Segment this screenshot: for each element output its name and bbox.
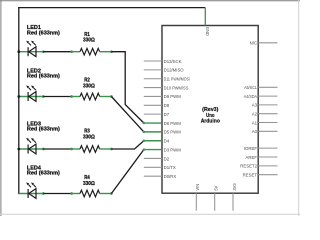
- svg-text:D12/MISO: D12/MISO: [164, 68, 185, 73]
- svg-text:D8: D8: [164, 103, 170, 108]
- pin A2 leg: [258, 113, 277, 115]
- svg-text:A5/SCL: A5/SCL: [244, 85, 257, 90]
- wire R4 to D3: [111, 150, 143, 194]
- pin N/C leg: [258, 42, 277, 44]
- node LED3 anode: [42, 148, 45, 151]
- LED LED1: [26, 41, 36, 57]
- svg-text:RESET: RESET: [243, 173, 258, 178]
- svg-text:AREF: AREF: [246, 155, 258, 160]
- node R4 pin1: [70, 192, 73, 195]
- node LED1 anode: [42, 50, 45, 53]
- wire LED2 to R2: [43, 96, 71, 98]
- pin A3 leg: [258, 104, 277, 106]
- svg-text:GND: GND: [205, 27, 210, 36]
- svg-text:RESET2: RESET2: [240, 164, 257, 169]
- resistor R1: [80, 48, 100, 55]
- wire LED3 cathode leg: [19, 148, 43, 150]
- pin D2 leg: [144, 157, 162, 159]
- svg-text:VIN: VIN: [195, 184, 200, 191]
- node R2 pin2: [110, 95, 113, 98]
- pin RESET leg: [258, 174, 277, 176]
- svg-text:D0/RX: D0/RX: [164, 174, 177, 179]
- svg-text:Red (633nm): Red (633nm): [27, 30, 60, 36]
- pin A5/SCL leg: [258, 86, 277, 88]
- node R1 pin2: [110, 50, 113, 53]
- pin IOREF leg: [258, 147, 277, 149]
- pin 3V3 leg: [232, 193, 234, 211]
- svg-text:D3 PWM: D3 PWM: [164, 147, 182, 152]
- svg-text:D11 PWM/MOSI: D11 PWM/MOSI: [164, 77, 190, 82]
- wire R1 to D6: [111, 52, 143, 123]
- svg-text:A4/SDA: A4/SDA: [244, 94, 257, 99]
- svg-text:D13/SCK: D13/SCK: [164, 59, 182, 64]
- svg-text:D5 PWM: D5 PWM: [164, 130, 182, 135]
- wire R1 right leg: [100, 51, 112, 53]
- pin D8 leg: [144, 104, 162, 106]
- wire R2 left leg: [72, 96, 80, 98]
- svg-text:D10 PWM/SS: D10 PWM/SS: [164, 85, 189, 90]
- pin D1/TX leg: [144, 166, 162, 168]
- svg-text:Red (633nm): Red (633nm): [27, 73, 60, 79]
- node R1 pin1: [70, 50, 73, 53]
- wire LED3 to R3: [43, 148, 71, 150]
- svg-text:D2: D2: [164, 156, 170, 161]
- svg-text:IOREF: IOREF: [244, 146, 258, 151]
- pin D10 PWM/SS leg: [144, 87, 162, 89]
- wire LED1 to R1: [43, 51, 71, 53]
- pin A1 leg: [258, 122, 277, 124]
- svg-text:R2: R2: [84, 78, 90, 84]
- node pin D3 PWM: [143, 148, 146, 151]
- pin D7 leg: [144, 113, 162, 115]
- node pin D4: [143, 139, 146, 142]
- pin D9 PWM leg: [144, 95, 162, 97]
- pin D3 PWM leg: [144, 149, 162, 151]
- node junction row 2: [17, 95, 20, 98]
- svg-text:A2: A2: [252, 112, 258, 117]
- svg-text:3V3: 3V3: [232, 183, 237, 191]
- svg-text:D7: D7: [164, 112, 170, 117]
- IC U1 Arduino Uno (Rev3) body: [162, 26, 258, 194]
- svg-text:330Ω: 330Ω: [83, 38, 95, 44]
- pin D6 PWM leg: [144, 122, 162, 124]
- resistor R3: [80, 146, 100, 153]
- wire R3 to D4: [111, 141, 143, 149]
- resistor R4: [80, 190, 100, 197]
- node R3 pin2: [110, 148, 113, 151]
- svg-text:D1/TX: D1/TX: [164, 165, 176, 170]
- svg-text:330Ω: 330Ω: [83, 181, 95, 187]
- svg-text:Red (633nm): Red (633nm): [27, 127, 60, 133]
- wire R4 left leg: [72, 193, 80, 195]
- node R3 pin1: [70, 148, 73, 151]
- wire LED4 cathode leg: [19, 193, 43, 195]
- pin D13/SCK leg: [144, 60, 162, 62]
- svg-text:A1: A1: [252, 120, 258, 125]
- node LED2 anode: [42, 95, 45, 98]
- svg-text:5V: 5V: [214, 185, 219, 190]
- node R4 pin2: [110, 192, 113, 195]
- pin D11 PWM/MOSI leg: [144, 78, 162, 80]
- wire R3 left leg: [72, 148, 80, 150]
- pin VIN leg: [195, 193, 197, 211]
- wire R2 to D5: [111, 97, 143, 132]
- node LED4 anode: [42, 192, 45, 195]
- svg-text:D4: D4: [164, 139, 170, 144]
- wire GND bus left vertical: [18, 7, 20, 194]
- wire R4 right leg: [100, 193, 112, 195]
- pin D12/MISO leg: [144, 69, 162, 71]
- svg-text:A0: A0: [252, 129, 258, 134]
- LED LED4: [26, 182, 36, 198]
- wire GND bus top: [18, 7, 205, 9]
- svg-text:330Ω: 330Ω: [83, 134, 95, 140]
- svg-text:330Ω: 330Ω: [83, 84, 95, 90]
- resistor R2: [80, 93, 100, 100]
- pin A4/SDA leg: [258, 95, 277, 97]
- node pin D5 PWM: [143, 131, 146, 134]
- node junction row 3: [17, 148, 20, 151]
- pin GND leg: [204, 8, 206, 26]
- node R2 pin1: [70, 95, 73, 98]
- LED LED2: [26, 85, 36, 101]
- LED LED3: [26, 138, 36, 154]
- node junction row 1: [17, 50, 20, 53]
- svg-text:D6 PWM: D6 PWM: [164, 121, 182, 126]
- pin A0 leg: [258, 130, 277, 132]
- wire LED2 cathode leg: [19, 96, 43, 98]
- svg-text:N/C: N/C: [250, 41, 257, 46]
- wire LED4 to R4: [43, 193, 71, 195]
- wire R1 left leg: [72, 51, 80, 53]
- pin 5V leg: [214, 193, 216, 211]
- pin RESET2 leg: [258, 165, 277, 167]
- pin D5 PWM leg: [144, 131, 162, 133]
- pin D4 leg: [144, 140, 162, 142]
- pin AREF leg: [258, 156, 277, 158]
- svg-text:A3: A3: [252, 103, 258, 108]
- wire R2 right leg: [100, 96, 112, 98]
- svg-text:Arduino: Arduino: [201, 119, 220, 125]
- svg-text:Red (633nm): Red (633nm): [27, 170, 60, 176]
- wire LED1 cathode leg: [19, 51, 43, 53]
- node pin D6 PWM: [143, 122, 146, 125]
- svg-text:D9 PWM: D9 PWM: [164, 94, 182, 99]
- wire R3 right leg: [100, 148, 112, 150]
- pin D0/RX leg: [144, 175, 162, 177]
